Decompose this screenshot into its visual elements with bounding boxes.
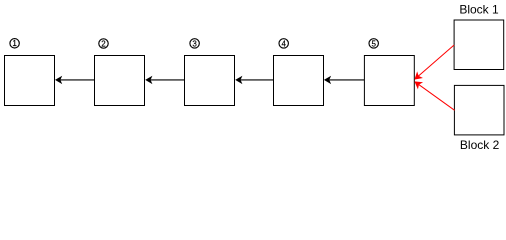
svg-text:4: 4 — [281, 39, 286, 48]
svg-text:2: 2 — [101, 39, 106, 48]
svg-text:5: 5 — [371, 39, 376, 48]
svg-text:Block 2: Block 2 — [460, 138, 500, 152]
svg-text:Block 1: Block 1 — [459, 3, 499, 17]
svg-text:1: 1 — [12, 39, 17, 48]
svg-text:3: 3 — [192, 39, 197, 48]
